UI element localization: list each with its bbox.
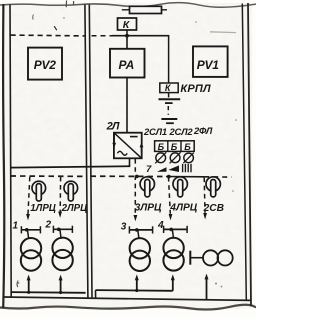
lamp L2 (170, 152, 181, 163)
wedge large (168, 165, 179, 172)
supply arrow T3 (135, 274, 139, 292)
node on bus 2 (135, 175, 139, 179)
transformer T4 (163, 238, 183, 271)
supply arrow 2SV (205, 274, 209, 300)
disconnector feeder 2 (53, 226, 72, 239)
wire down to relay KRPL (168, 36, 170, 83)
track relay key 4LRTS (173, 177, 187, 197)
relay K KRPL (160, 83, 178, 93)
stray scan arc (17, 281, 18, 288)
dashed link (167, 106, 169, 115)
frame right outer (248, 3, 251, 306)
dashed drop feeder 2 (58, 177, 62, 218)
transformer T3 (130, 238, 150, 271)
label 2SL1 2SL2 2FL (143, 125, 213, 137)
bus tail dashes (204, 176, 231, 178)
wedge small (157, 167, 167, 171)
frame bottom (4, 297, 251, 300)
track relay key 2LRTS (64, 181, 78, 201)
supply arrow T1 (27, 275, 31, 294)
supply arrow T4 (171, 274, 175, 290)
wire node to PA (126, 36, 128, 49)
dashed drop feeder 4 (169, 177, 173, 220)
motor generator 2SV (190, 250, 232, 265)
scan speckles (18, 17, 237, 287)
faint scan smudge (210, 31, 236, 34)
wire horizontal to KRPL branch (112, 35, 169, 37)
frame left outer (3, 4, 4, 308)
converter 2L (112, 133, 143, 159)
ground plate lower (161, 119, 177, 123)
dashed signal bus right (91, 175, 167, 177)
track relay key 3LRTS (140, 177, 154, 197)
disconnector feeder 1 (21, 226, 40, 239)
dashed drop feeder 3 (134, 159, 138, 221)
busbar section divider right line (89, 5, 92, 298)
supply arrow T2 (59, 275, 63, 295)
ground plate upper (159, 99, 181, 103)
voltmeter PV2 (28, 48, 62, 80)
dashed drop 2SV (203, 178, 207, 220)
wire PA to converter 2L (126, 78, 128, 133)
relay K (top box) (118, 18, 137, 31)
busbar section divider left line (85, 5, 88, 298)
fuse F (top) (122, 6, 167, 13)
transformer T1 (21, 238, 41, 271)
wire converter output (129, 159, 131, 167)
paper bottom edge (0, 305, 256, 310)
dashed wire stub from divider (92, 35, 113, 37)
frame left inner (10, 5, 11, 298)
stray pen tick (54, 26, 57, 30)
lamp L3 (183, 153, 193, 163)
wire K box to node (126, 30, 128, 36)
bus bottom right (96, 290, 173, 298)
registration tick top (66, 1, 73, 8)
ammeter PA (110, 49, 145, 78)
small fleck (32, 15, 35, 20)
bus solid segment (166, 176, 204, 178)
dashed control bus left cell (11, 34, 86, 37)
terminal block B B B (155, 141, 195, 152)
transformer T2 (52, 238, 72, 271)
frame right inner (242, 4, 246, 300)
bus bottom left (11, 291, 85, 294)
node junction dot (125, 34, 129, 38)
node on bus (167, 175, 171, 179)
wire horizontal feeder line (10, 166, 130, 167)
lamp L1 (155, 152, 166, 163)
track relay key 2SV (206, 177, 220, 197)
paper top edge (0, 3, 256, 8)
dashed signal bus left (11, 175, 86, 177)
disconnector feeder 3 (129, 226, 152, 239)
voltmeter PV1 (193, 46, 228, 77)
comb bars (183, 164, 191, 173)
dashed drop feeder 1 (26, 177, 30, 221)
disconnector feeder 4 (164, 226, 188, 239)
wire KRPL to contact (168, 93, 170, 98)
track relay key 1LRTS (32, 181, 46, 201)
